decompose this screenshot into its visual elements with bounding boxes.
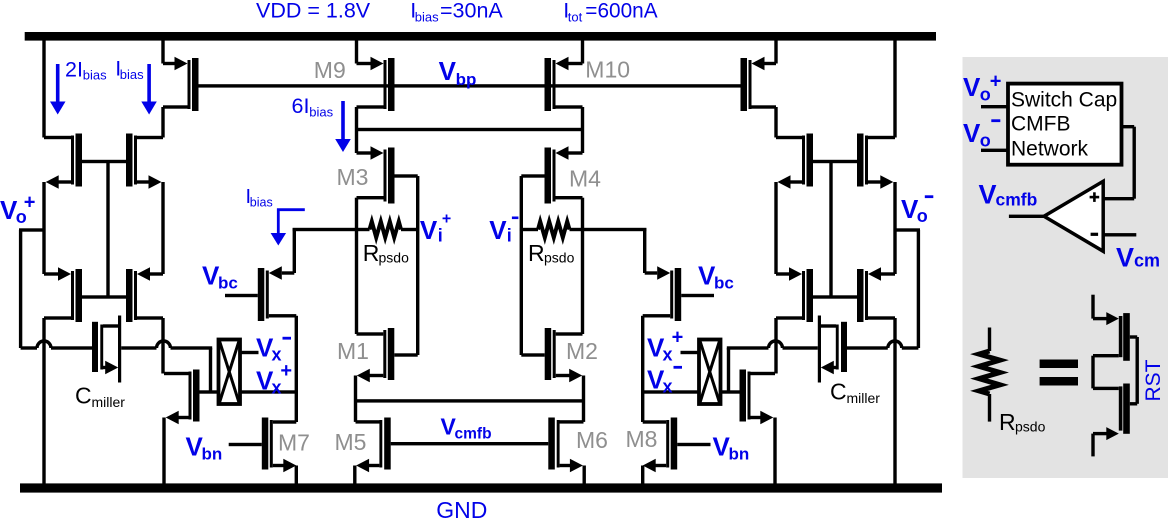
resistor Rpsdo left (370, 222, 420, 238)
wire Vcmfb gate line (391, 442, 549, 445)
svg-text:o: o (917, 206, 928, 226)
label Cmiller left (75, 383, 125, 411)
transistor RST bottom (1091, 384, 1137, 457)
transistor cross-coupled NMOS lower-left (44, 267, 82, 322)
svg-text:M10: M10 (585, 57, 630, 83)
label Ibias elbow (246, 186, 273, 210)
wire panel Vo+ stub (981, 105, 1007, 108)
svg-text:bp: bp (456, 70, 477, 89)
label Rpsdo left (363, 240, 409, 266)
wire RST gate link (1136, 337, 1139, 404)
wire gate tap down right (829, 162, 832, 298)
wire Vx+ stub right (681, 351, 700, 354)
svg-text:V: V (489, 215, 507, 245)
switch box right (699, 340, 721, 405)
svg-text:V: V (963, 118, 981, 148)
wire Vx- stub left (240, 351, 259, 354)
wire Vx+ line left (240, 390, 296, 393)
wire Ibias feed left (293, 228, 370, 231)
svg-text:psdo: psdo (544, 250, 575, 266)
label Vi- (489, 215, 518, 246)
transistor cross-coupled PMOS upper-left (44, 134, 82, 189)
svg-text:RST: RST (1142, 359, 1165, 401)
label panel Vo+ (963, 70, 1001, 104)
wire amp output stub (1009, 215, 1045, 218)
svg-text:+: + (280, 360, 292, 382)
svg-text:cmfb: cmfb (996, 190, 1038, 210)
svg-text:psdo: psdo (379, 250, 410, 266)
transistor cross-coupled NMOS right-block-right (857, 267, 895, 322)
wire Vo+ column (42, 182, 45, 274)
svg-text:miller: miller (92, 394, 126, 410)
label M7 (278, 430, 310, 456)
transistor M5 (353, 418, 391, 484)
svg-text:2I: 2I (65, 57, 83, 81)
wire upper pair gate link right (813, 160, 857, 163)
wire riser to switch right (727, 348, 730, 392)
wire Vo+ stub (19, 228, 44, 348)
label Rpsdo panel (999, 409, 1046, 435)
wire upper pair gate link (82, 160, 126, 163)
transistor M10 (545, 41, 585, 154)
svg-text:CMFB: CMFB (1011, 113, 1071, 136)
transistor top-right mirror PMOS (741, 41, 778, 138)
svg-text:Network: Network (1011, 138, 1089, 161)
capacitor Cmiller left (21, 316, 213, 383)
label Vcmfb (441, 413, 492, 442)
label M8 (626, 426, 658, 452)
svg-text:+: + (24, 192, 36, 214)
label Vbn left (186, 432, 223, 464)
svg-text:M4: M4 (569, 166, 601, 192)
wire Vx- line right (643, 390, 699, 393)
transistor M4 (521, 146, 584, 334)
wire gate tap down (106, 162, 109, 298)
transistor M1 (354, 328, 418, 422)
label VDD = 1.8V (256, 0, 371, 23)
label M4 (569, 166, 601, 192)
label Vbn right (713, 432, 750, 464)
svg-text:bn: bn (202, 445, 223, 464)
svg-text:V: V (963, 72, 981, 102)
wire left source to GND (42, 318, 45, 484)
svg-text:GND: GND (436, 497, 487, 518)
resistor Rpsdo panel (979, 328, 1000, 422)
wire box to amp plus input (1104, 125, 1136, 200)
block Switch Cap CMFB Network (1008, 84, 1122, 165)
junction hop over right column (888, 341, 902, 348)
transistor cross-coupled NMOS right-block-left (776, 267, 813, 322)
svg-text:C: C (830, 379, 847, 405)
label GND (436, 497, 487, 518)
svg-text:M2: M2 (566, 338, 598, 364)
label Vcm (1116, 243, 1160, 273)
label RST (1142, 359, 1165, 401)
node Vo+ label (0, 192, 35, 228)
node Vi+ column (416, 176, 419, 355)
current arrow Ibias elbow (271, 210, 305, 246)
wire panel Vo- stub (981, 149, 1007, 152)
transistor cross-coupled PMOS right-block-right (857, 134, 895, 189)
svg-text:+: + (442, 211, 451, 228)
label Vx+ left (256, 360, 292, 397)
equals sign (1040, 360, 1078, 386)
svg-text:R: R (363, 240, 380, 266)
label Rpsdo right (528, 240, 575, 266)
svg-text:=30nA: =30nA (440, 0, 503, 23)
current arrow Ibias (141, 64, 157, 115)
label Vx+ right (647, 326, 683, 364)
wire lower pair gate link (82, 295, 126, 298)
VDD power rail (25, 32, 936, 41)
junction hop over mid column (157, 341, 171, 348)
wire amp minus stub (1104, 233, 1136, 236)
transistor Vbc cascode PMOS left (225, 228, 298, 392)
transistor cascode NMOS right (721, 370, 777, 484)
svg-text:psdo: psdo (1015, 419, 1046, 435)
wire lower pair gate link right (813, 295, 857, 298)
transistor cross-coupled PMOS upper-right (126, 134, 163, 189)
label Vx- left (256, 333, 291, 365)
transistor cross-coupled NMOS lower-right (126, 267, 163, 322)
svg-text:i: i (438, 226, 443, 246)
label M1 (337, 338, 369, 364)
svg-text:bias: bias (415, 10, 439, 25)
svg-text:i: i (507, 226, 512, 246)
svg-text:M9: M9 (314, 57, 346, 83)
label M10 (585, 57, 630, 83)
label Vx- right (647, 365, 682, 397)
svg-text:M8: M8 (626, 426, 658, 452)
svg-text:V: V (979, 180, 997, 210)
label Cmiller right (830, 379, 880, 407)
transistor cascode NMOS left (162, 370, 218, 484)
switch box left (219, 340, 241, 405)
node Vi- column (520, 176, 523, 355)
svg-text:miller: miller (847, 390, 881, 406)
GND power rail (20, 483, 942, 492)
label Vbc left (202, 261, 238, 293)
svg-text:V: V (1116, 243, 1134, 273)
wire Ibias feed right (570, 228, 647, 231)
svg-text:V: V (420, 215, 438, 245)
wire right branch down (161, 182, 164, 374)
svg-text:cm: cm (1134, 251, 1160, 271)
label Vbc right (698, 261, 734, 293)
svg-text:=600nA: =600nA (585, 0, 657, 23)
svg-text:M6: M6 (576, 427, 608, 453)
wire Vo- column (893, 182, 896, 274)
svg-text:bc: bc (218, 274, 238, 293)
svg-text:o: o (980, 131, 991, 151)
transistor top-left mirror PMOS (161, 41, 198, 138)
svg-text:cmfb: cmfb (455, 426, 492, 443)
label Ibias=30nA (410, 0, 503, 25)
svg-text:M1: M1 (337, 338, 369, 364)
junction hop over left column (37, 341, 51, 348)
panel background (963, 57, 1168, 478)
wire Vo- stub (895, 228, 920, 348)
wire 2Ibias branch right from VDD (893, 41, 896, 138)
transistor M7 (229, 392, 298, 484)
transistor cross-coupled PMOS right-block-left (776, 134, 813, 189)
current arrow 6Ibias (335, 101, 351, 152)
svg-text:M3: M3 (337, 164, 369, 190)
transistor M2 (521, 328, 585, 422)
transistor M9 (355, 41, 395, 154)
svg-text:bn: bn (729, 445, 750, 464)
transistor M8 (641, 392, 711, 484)
junction hop over mid column right (769, 341, 783, 348)
label panel Vcmfb (979, 180, 1038, 210)
wire right source to GND (893, 318, 896, 484)
label Vi+ (420, 211, 451, 246)
wire mid branch down right (774, 182, 777, 374)
svg-text:R: R (528, 240, 545, 266)
transistor M6 (548, 418, 586, 484)
label panel Vo- (963, 118, 1000, 151)
svg-text:+: + (990, 70, 1002, 92)
svg-text:6I: 6I (292, 94, 310, 118)
label 6Ibias (292, 94, 334, 119)
svg-text:M5: M5 (335, 429, 367, 455)
wire cascode link line (357, 128, 583, 131)
svg-text:bias: bias (250, 196, 273, 210)
transistor RST top (1091, 295, 1137, 389)
resistor Rpsdo right (520, 222, 570, 238)
node Vo- label (901, 194, 933, 226)
label Vbp (439, 56, 477, 89)
label M3 (337, 164, 369, 190)
svg-text:bias: bias (120, 67, 144, 82)
transistor M3 (355, 146, 418, 334)
svg-text:+: + (672, 326, 684, 348)
svg-text:VDD = 1.8V: VDD = 1.8V (256, 0, 371, 23)
wire riser to switch (209, 348, 212, 392)
svg-text:R: R (999, 409, 1016, 435)
svg-text:bias: bias (83, 68, 107, 83)
transistor Vbc cascode PMOS right (641, 228, 714, 392)
svg-text:bias: bias (309, 105, 333, 120)
wire tail link line (356, 399, 584, 402)
label M9 (314, 57, 346, 83)
label M6 (576, 427, 608, 453)
svg-text:tot: tot (568, 10, 583, 25)
label Ibias (115, 57, 144, 82)
current arrow 2Ibias (50, 64, 66, 115)
svg-text:M7: M7 (278, 430, 310, 456)
svg-text:x: x (663, 377, 673, 397)
label M5 (335, 429, 367, 455)
label 2Ibias (65, 57, 107, 82)
wire Vbp gate line (199, 84, 741, 87)
svg-text:V: V (439, 56, 457, 86)
svg-text:C: C (75, 383, 92, 409)
svg-text:Switch Cap: Switch Cap (1011, 89, 1117, 112)
wire 2Ibias branch from VDD (42, 41, 45, 138)
label Itot=600nA (563, 0, 657, 25)
svg-text:bc: bc (714, 274, 734, 293)
capacitor Cmiller right (727, 316, 919, 383)
label M2 (566, 338, 598, 364)
op-amp comparator triangle (1044, 181, 1103, 251)
